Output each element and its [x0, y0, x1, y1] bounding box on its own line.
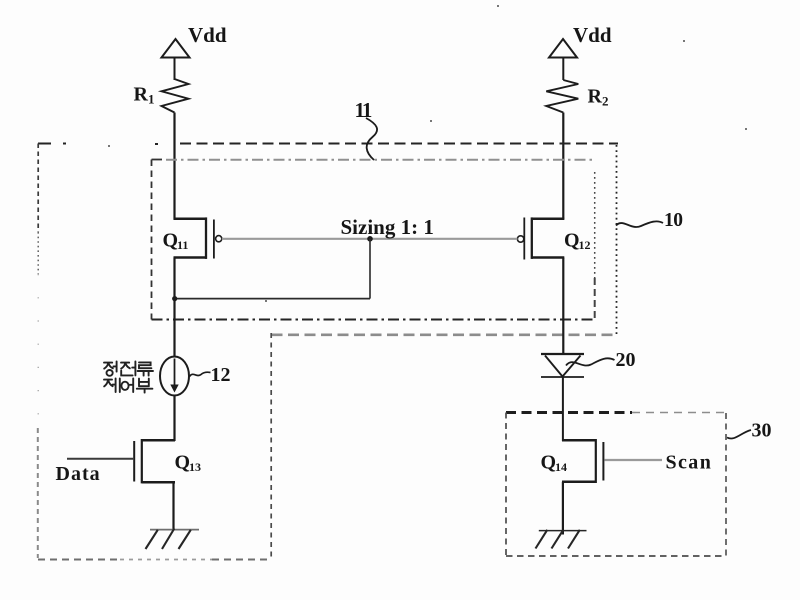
current source symbol (element 12) — [160, 357, 189, 396]
svg-text:11: 11 — [355, 98, 372, 122]
svg-text:Sizing 1: 1: Sizing 1: 1 — [341, 215, 434, 239]
svg-text:Scan: Scan — [666, 452, 713, 474]
svg-text:12: 12 — [579, 238, 591, 252]
transistor Q11 (PMOS) — [174, 217, 222, 259]
power symbol Vdd right — [549, 39, 577, 80]
wire Q13 source to ground — [172, 482, 174, 529]
ground left — [146, 529, 200, 550]
glyph 정 — [104, 361, 117, 371]
svg-text:2: 2 — [602, 94, 609, 109]
svg-text:20: 20 — [616, 349, 636, 371]
transistor Q13 (NMOS) — [134, 439, 175, 483]
wire Data to Q13 gate — [67, 458, 133, 460]
label 20 with leader — [566, 349, 636, 371]
wire Q12 drain to LED — [562, 258, 564, 355]
ground right — [536, 530, 587, 549]
transistor Q14 (NMOS) — [562, 439, 603, 483]
resistor R1 — [162, 79, 189, 113]
glyph 전 — [121, 361, 135, 375]
wire Scan to Q14 gate (grey) — [604, 459, 662, 461]
region 11 box: top grey dash-dot edge — [152, 159, 597, 161]
label 11 with leader — [355, 98, 378, 160]
svg-text:Vdd: Vdd — [188, 23, 227, 47]
glyph 제 — [104, 378, 120, 392]
region 10 boundary: top dashed edge — [38, 143, 618, 146]
svg-text:13: 13 — [189, 460, 201, 474]
svg-text:Q: Q — [564, 230, 580, 252]
region 10 boundary: inner right dashed edge — [270, 333, 272, 560]
label 10 with leader — [616, 210, 683, 231]
LED / organic EL element 20 — [541, 354, 584, 377]
wire LED to Q14 drain — [562, 377, 564, 441]
region 11 box: bottom dash-dot edge — [152, 319, 595, 321]
svg-text:10: 10 — [664, 210, 683, 231]
svg-text:Q: Q — [175, 452, 191, 474]
region 11 box: right edge dotted then dashed — [594, 172, 596, 320]
svg-text:1: 1 — [148, 92, 155, 107]
wire R1 to Q11 source — [173, 113, 175, 220]
label korean jeongjeonryu jeeobu (drawn glyphs) — [104, 361, 153, 392]
glyph 어 — [121, 382, 128, 390]
wire R2 to Q12 source — [562, 113, 564, 220]
scan speckles — [108, 5, 747, 302]
label 12 with leader — [190, 364, 231, 386]
wire Q14 source to ground — [562, 482, 564, 535]
svg-text:Q: Q — [163, 230, 179, 252]
transistor Q12 (PMOS) — [517, 217, 564, 259]
power symbol Vdd left — [162, 39, 190, 80]
resistor R2 — [546, 80, 578, 113]
svg-text:Data: Data — [56, 463, 101, 485]
svg-text:Vdd: Vdd — [573, 23, 612, 47]
svg-text:11: 11 — [177, 238, 188, 252]
glyph 부 — [137, 379, 153, 393]
label 30 with leader — [727, 420, 772, 442]
region 10 boundary: grey dashed bottom (right part) — [272, 333, 616, 336]
wire gate to drain vertical — [369, 239, 371, 299]
svg-text:R: R — [134, 84, 149, 106]
svg-text:12: 12 — [211, 364, 231, 386]
region 10 boundary: left dashed edge — [37, 144, 39, 559]
svg-text:R: R — [588, 86, 603, 108]
wire Q11 drain down to current source — [173, 258, 175, 358]
svg-text:14: 14 — [555, 460, 567, 474]
region 10 boundary: right dotted edge — [616, 145, 618, 334]
wire gate to drain horizontal — [175, 298, 371, 300]
wire current source to Q13 drain — [173, 395, 175, 442]
svg-text:Q: Q — [541, 452, 557, 474]
svg-text:30: 30 — [752, 420, 772, 442]
region 10 boundary: bottom dashed edge (left part) — [38, 558, 272, 560]
region 11 box: left dashed edge — [151, 160, 153, 320]
node junction on gate bus — [367, 236, 373, 242]
glyph 류 — [138, 362, 153, 375]
node junction on left wire — [172, 296, 177, 301]
wire gate bus between Q11 and Q12 (grey) — [222, 238, 518, 240]
region 30 dashed box — [506, 413, 726, 557]
